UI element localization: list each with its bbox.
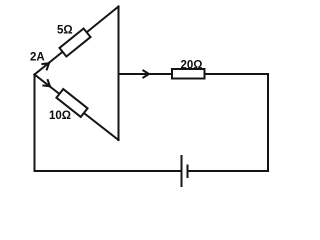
- battery B1 long plate (+): [181, 155, 183, 187]
- wire: bottom left (battery to left corner): [35, 170, 182, 172]
- resistor 10Ω body: [56, 89, 87, 117]
- wire: lower diagonal branch (node A to bottom vertex): [35, 75, 119, 141]
- wire: right vertical: [267, 74, 269, 171]
- wire: left vertical (bottom-left corner up to node A): [34, 75, 36, 172]
- wire: bottom right (right corner to battery): [188, 170, 269, 172]
- current arrow on lower branch: [42, 79, 52, 89]
- wire: middle horizontal (node B to right edge): [119, 73, 269, 75]
- svg-text:10Ω: 10Ω: [49, 110, 71, 122]
- current arrow on middle wire: [143, 70, 150, 78]
- current arrow on upper branch: [41, 60, 51, 70]
- svg-text:20Ω: 20Ω: [181, 59, 203, 71]
- svg-text:5Ω: 5Ω: [57, 25, 73, 37]
- wire: upper diagonal branch (node A to top vertex): [35, 7, 119, 75]
- svg-text:2A: 2A: [30, 52, 45, 64]
- wire: right side of branch loop (vertical joining branches): [118, 7, 120, 141]
- resistor 5Ω body: [59, 28, 90, 56]
- battery B1 short plate (-): [187, 165, 189, 179]
- resistor 20Ω body: [172, 69, 205, 79]
